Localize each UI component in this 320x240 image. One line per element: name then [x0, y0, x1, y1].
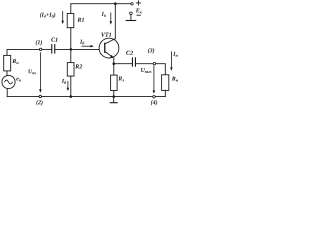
wire R1 bottom to base node	[70, 28, 72, 50]
label Rи	[12, 59, 18, 64]
label (4)	[151, 100, 157, 105]
arrow Iд beside R2 lower wire	[67, 81, 69, 89]
label Iн	[173, 52, 178, 57]
wire C1 to transistor base	[55, 48, 99, 50]
label (2)	[36, 100, 42, 105]
capacitor C2	[132, 57, 136, 66]
transistor collector diagonal	[105, 39, 115, 44]
resistor Rэ	[113, 64, 115, 75]
resistor R1	[67, 14, 74, 28]
node emitter junction	[113, 62, 116, 65]
wire C2 to node 3	[136, 63, 153, 65]
node base junction	[70, 48, 73, 51]
label Iб	[80, 40, 85, 45]
transistor base bar	[104, 43, 105, 53]
wire Rи to source circle	[6, 71, 8, 76]
terminal + of Eк	[131, 3, 133, 5]
label R1	[77, 18, 84, 22]
node (3) terminal	[153, 62, 155, 64]
label eи	[16, 78, 21, 82]
node junction top rail / collector	[114, 2, 117, 5]
label Eк	[136, 9, 142, 14]
arrow Iн into load	[170, 52, 172, 69]
arrow (Iд+Iб) beside R1	[62, 11, 64, 22]
wire source bottom to rail	[6, 89, 8, 97]
transistor emitter diagonal with arrowhead	[105, 52, 112, 57]
wire collector drop	[114, 4, 116, 39]
label Uвх	[28, 69, 36, 74]
wire emitter node to C2	[114, 63, 132, 65]
arrow Iб on base wire	[82, 45, 92, 47]
label VT1	[101, 33, 111, 37]
ground symbol	[113, 97, 115, 103]
label (1)	[36, 40, 42, 45]
transistor VT1 circle	[99, 38, 119, 58]
label Iд	[62, 79, 66, 84]
label R2	[75, 64, 82, 68]
resistor R2	[70, 49, 72, 62]
wire node 3 to Rн corner	[156, 64, 166, 75]
wire input from source corner to node 1	[7, 49, 39, 55]
resistor Rи	[4, 55, 11, 71]
node (4) terminal	[153, 96, 155, 98]
terminal - of Eк with bar	[130, 12, 133, 15]
wire top rail from R1 corner to + terminal	[71, 4, 131, 14]
label (Iд+Iб)	[40, 13, 55, 18]
node (2) terminal	[39, 95, 41, 97]
arrow Uвх (node 1 to node 2)	[39, 53, 41, 91]
wire emitter drop	[113, 58, 115, 64]
wire node 1 to C1	[42, 48, 51, 50]
label Rн	[172, 77, 178, 82]
node (1) terminal	[39, 48, 41, 50]
source eи (AC, sine)	[2, 75, 15, 88]
wire bottom rail	[7, 96, 165, 98]
arrow Uвых (node 3 to node 4)	[153, 66, 155, 92]
node ground junction	[112, 95, 115, 98]
label Rэ	[118, 77, 124, 82]
label C2	[126, 51, 133, 55]
label Uвых	[141, 68, 152, 73]
label (3)	[148, 48, 154, 53]
label Iк	[102, 12, 107, 17]
label C1	[51, 38, 57, 42]
resistor Rн	[162, 75, 169, 91]
arrow Iк on collector wire	[110, 13, 112, 23]
capacitor C1	[51, 44, 55, 54]
